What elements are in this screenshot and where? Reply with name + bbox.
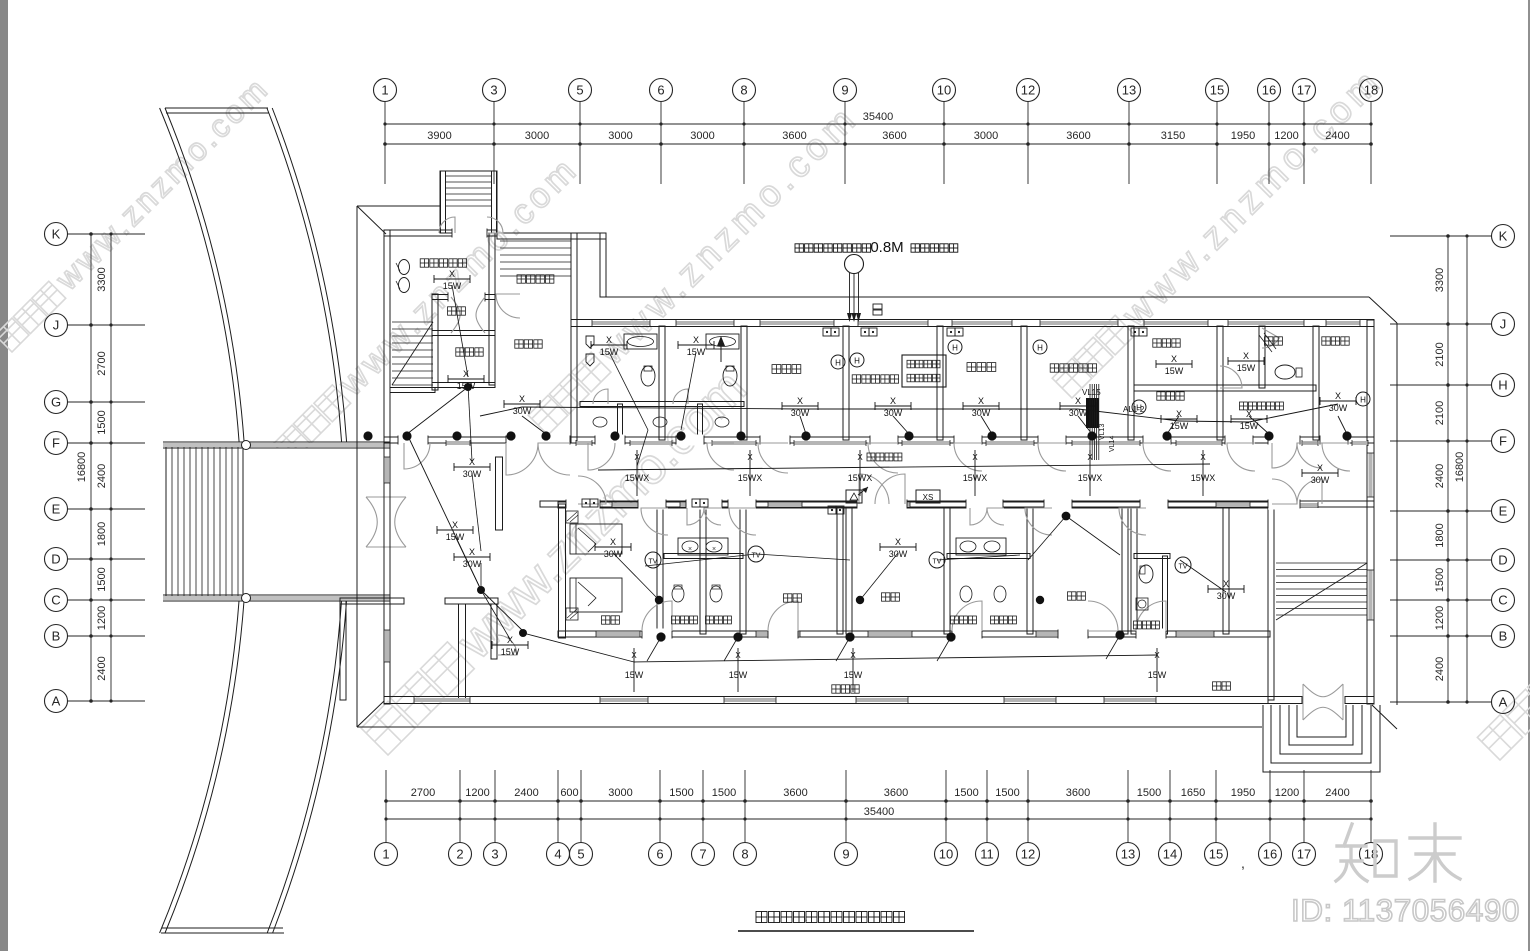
svg-text:5: 5 (577, 847, 584, 862)
svg-text:15WX: 15WX (963, 473, 988, 483)
svg-text:12: 12 (1021, 83, 1035, 98)
svg-text:E: E (1499, 504, 1508, 519)
svg-text:7: 7 (699, 847, 706, 862)
svg-text:K: K (52, 227, 61, 242)
svg-text:4: 4 (554, 847, 561, 862)
svg-text:15W: 15W (687, 347, 706, 357)
svg-text:6: 6 (657, 83, 664, 98)
svg-text:1: 1 (381, 83, 388, 98)
svg-text:1: 1 (382, 847, 389, 862)
svg-text:3: 3 (491, 847, 498, 862)
svg-text:35400: 35400 (864, 806, 895, 818)
svg-text:11: 11 (980, 847, 994, 862)
svg-text:15W: 15W (625, 670, 644, 680)
svg-text:X: X (978, 396, 984, 406)
svg-text:15W: 15W (1165, 366, 1184, 376)
svg-text:2100: 2100 (1434, 401, 1446, 425)
svg-text:J: J (1500, 317, 1507, 332)
svg-text:15W: 15W (501, 647, 520, 657)
svg-text:9: 9 (841, 83, 848, 98)
svg-text:6: 6 (656, 847, 663, 862)
svg-text:TV: TV (752, 553, 761, 560)
svg-text:X: X (693, 335, 699, 345)
svg-text:F: F (1499, 434, 1507, 449)
svg-text:17: 17 (1297, 83, 1311, 98)
svg-text:18: 18 (1364, 83, 1378, 98)
svg-text:X: X (1317, 463, 1323, 473)
svg-text:15W: 15W (844, 670, 863, 680)
svg-text:1500: 1500 (96, 410, 108, 434)
svg-text:1800: 1800 (96, 522, 108, 546)
svg-text:,: , (1241, 855, 1245, 871)
svg-text:15W: 15W (1237, 363, 1256, 373)
svg-text:3600: 3600 (1066, 787, 1090, 799)
svg-text:2400: 2400 (96, 464, 108, 488)
svg-text:H: H (1360, 396, 1366, 405)
svg-text:G: G (51, 395, 61, 410)
svg-text:X: X (469, 547, 475, 557)
svg-text:X: X (972, 453, 978, 462)
svg-text:16: 16 (1262, 83, 1276, 98)
svg-text:35400: 35400 (863, 111, 894, 123)
svg-text:X: X (1087, 453, 1093, 462)
svg-text:3300: 3300 (96, 267, 108, 291)
svg-text:.: . (804, 910, 807, 924)
svg-text:3300: 3300 (1434, 268, 1446, 292)
svg-text:30W: 30W (604, 549, 623, 559)
svg-text:13: 13 (1121, 847, 1135, 862)
svg-text:16: 16 (1263, 847, 1277, 862)
svg-text:0.8M: 0.8M (870, 239, 903, 256)
svg-text:X: X (463, 369, 469, 379)
svg-text:13: 13 (1122, 83, 1136, 98)
svg-text:10: 10 (939, 847, 953, 862)
svg-text:10: 10 (937, 83, 951, 98)
svg-text:3600: 3600 (882, 130, 906, 142)
svg-text:X: X (1200, 453, 1206, 462)
svg-text:1500: 1500 (1434, 568, 1446, 592)
svg-text:1500: 1500 (995, 787, 1019, 799)
svg-text:VL15: VL15 (1082, 388, 1101, 397)
svg-text:X: X (606, 335, 612, 345)
svg-text:1200: 1200 (1275, 787, 1299, 799)
svg-text:X: X (1171, 354, 1177, 364)
svg-text:X: X (631, 651, 637, 660)
svg-text:8: 8 (741, 847, 748, 862)
svg-text:X: X (797, 396, 803, 406)
svg-text:3000: 3000 (974, 130, 998, 142)
svg-text:2700: 2700 (411, 787, 435, 799)
svg-text:2400: 2400 (1325, 130, 1349, 142)
svg-text:15W: 15W (1148, 670, 1167, 680)
svg-text:15WX: 15WX (738, 473, 763, 483)
svg-text:3900: 3900 (427, 130, 451, 142)
svg-text:E: E (52, 502, 61, 517)
svg-text:X: X (610, 537, 616, 547)
svg-text:3600: 3600 (884, 787, 908, 799)
svg-text:X: X (449, 269, 455, 279)
svg-text:1200: 1200 (1434, 606, 1446, 630)
svg-text:AL1-2: AL1-2 (1123, 405, 1145, 414)
svg-text:15: 15 (1210, 83, 1224, 98)
svg-text:2400: 2400 (96, 656, 108, 680)
svg-text:D: D (51, 552, 60, 567)
svg-text:3150: 3150 (1161, 130, 1185, 142)
svg-text:H: H (835, 359, 841, 368)
svg-text:15WX: 15WX (1191, 473, 1216, 483)
svg-text:X: X (747, 453, 753, 462)
svg-text:X: X (1075, 396, 1081, 406)
svg-text:15: 15 (1209, 847, 1223, 862)
svg-text:2100: 2100 (1434, 342, 1446, 366)
svg-text:15W: 15W (729, 670, 748, 680)
svg-text:X: X (1176, 409, 1182, 419)
svg-text:3000: 3000 (525, 130, 549, 142)
svg-text:16800: 16800 (76, 452, 88, 483)
svg-text:3000: 3000 (608, 787, 632, 799)
svg-text:2400: 2400 (1434, 464, 1446, 488)
svg-text:1500: 1500 (669, 787, 693, 799)
svg-text:1950: 1950 (1231, 130, 1255, 142)
svg-text:H: H (854, 357, 860, 366)
svg-text:1950: 1950 (1231, 787, 1255, 799)
svg-text:3000: 3000 (608, 130, 632, 142)
svg-text:1500: 1500 (954, 787, 978, 799)
svg-text:H: H (1037, 344, 1043, 353)
svg-text:3600: 3600 (1066, 130, 1090, 142)
svg-text:1200: 1200 (96, 606, 108, 630)
svg-text:X: X (1243, 351, 1249, 361)
svg-text:12: 12 (1021, 847, 1035, 862)
svg-text:VL14: VL14 (1109, 436, 1116, 452)
svg-text:30W: 30W (513, 406, 532, 416)
svg-text:X: X (735, 651, 741, 660)
svg-text:X: X (1154, 651, 1160, 660)
svg-text:X: X (519, 394, 525, 404)
svg-text:1650: 1650 (1181, 787, 1205, 799)
svg-text:ID: 1137056490: ID: 1137056490 (1291, 892, 1520, 928)
svg-text:1500: 1500 (1137, 787, 1161, 799)
svg-text:2400: 2400 (1325, 787, 1349, 799)
svg-text:8: 8 (740, 83, 747, 98)
svg-text:X: X (857, 453, 863, 462)
svg-text:30W: 30W (1329, 403, 1348, 413)
svg-text:J: J (53, 318, 60, 333)
svg-text:A: A (1499, 695, 1508, 710)
svg-text:14: 14 (1163, 847, 1177, 862)
svg-text:H: H (952, 344, 958, 353)
svg-text:1800: 1800 (1434, 523, 1446, 547)
svg-text:D: D (1498, 553, 1507, 568)
svg-text:1500: 1500 (712, 787, 736, 799)
svg-text:3600: 3600 (783, 787, 807, 799)
svg-text:3000: 3000 (690, 130, 714, 142)
svg-text:3600: 3600 (782, 130, 806, 142)
svg-text:XS: XS (923, 493, 934, 502)
svg-text:30W: 30W (889, 549, 908, 559)
svg-text:15WX: 15WX (1078, 473, 1103, 483)
svg-text:16800: 16800 (1454, 452, 1466, 483)
svg-text:2400: 2400 (514, 787, 538, 799)
svg-text:H: H (1498, 378, 1507, 393)
svg-text:600: 600 (560, 787, 578, 799)
svg-text:X: X (1223, 579, 1229, 589)
svg-text:1200: 1200 (1274, 130, 1298, 142)
svg-text:30W: 30W (463, 559, 482, 569)
svg-text:X: X (895, 537, 901, 547)
svg-text:2: 2 (456, 847, 463, 862)
svg-text:2700: 2700 (96, 351, 108, 375)
svg-text:X: X (452, 520, 458, 530)
svg-text:17: 17 (1297, 847, 1311, 862)
svg-text:15WX: 15WX (848, 473, 873, 483)
svg-text:1200: 1200 (465, 787, 489, 799)
svg-text:K: K (1499, 229, 1508, 244)
svg-text:×: × (712, 546, 716, 553)
svg-text:9: 9 (842, 847, 849, 862)
svg-text:X: X (850, 651, 856, 660)
svg-text:1500: 1500 (96, 567, 108, 591)
svg-text:C: C (51, 593, 60, 608)
svg-text:30W: 30W (1217, 591, 1236, 601)
svg-text:X: X (890, 396, 896, 406)
svg-text:B: B (52, 629, 61, 644)
svg-text:5: 5 (576, 83, 583, 98)
svg-text:F: F (52, 436, 60, 451)
svg-text:3: 3 (490, 83, 497, 98)
svg-text:B: B (1499, 629, 1508, 644)
svg-text:X: X (507, 635, 513, 645)
svg-text:2400: 2400 (1434, 657, 1446, 681)
svg-text:15WX: 15WX (625, 473, 650, 483)
svg-text:C: C (1498, 593, 1507, 608)
svg-text:X: X (1335, 391, 1341, 401)
svg-text:A: A (52, 694, 61, 709)
svg-text:30W: 30W (1311, 475, 1330, 485)
svg-text:×: × (688, 546, 692, 553)
svg-text:VL13: VL13 (1099, 424, 1106, 440)
